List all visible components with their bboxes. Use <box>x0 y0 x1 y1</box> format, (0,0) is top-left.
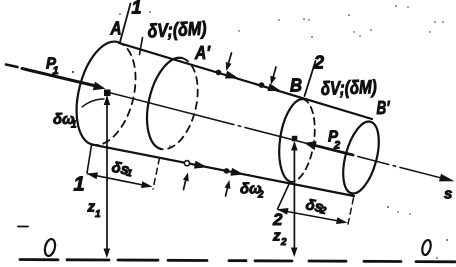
velocity dot 1 on top line <box>216 70 222 76</box>
arrowhead of s axis <box>439 174 455 182</box>
svg-text:δV;(δM): δV;(δM) <box>320 77 377 100</box>
dimension z2 vertical <box>291 141 298 257</box>
wire axis lead-in dash <box>6 65 18 68</box>
svg-text:1: 1 <box>53 65 59 77</box>
small down arrow 1 onto top line <box>226 53 232 71</box>
section line 1 extension below tube <box>87 145 92 173</box>
velocity dot 2 on bottom line <box>224 168 230 174</box>
node centre of section 2 <box>292 136 298 142</box>
svg-text:2: 2 <box>272 210 283 229</box>
section line 2 extension below tube <box>278 183 290 209</box>
velocity arrowhead 1 on top line <box>225 71 239 79</box>
small up arrow 1 onto bottom line <box>183 173 189 190</box>
svg-text:2: 2 <box>333 140 340 152</box>
svg-text:z: z <box>272 228 281 245</box>
leader arc of dw1 <box>82 99 104 107</box>
small down arrow 2 onto top line <box>270 67 276 85</box>
label O left <box>43 238 56 257</box>
small stray dash left <box>18 226 28 228</box>
velocity arrowhead 1 on bottom line <box>194 161 208 169</box>
svg-text:1: 1 <box>132 0 142 18</box>
dashed projection of A' below tube <box>153 158 160 189</box>
svg-text:A′: A′ <box>194 43 210 63</box>
arrow P1 pressure force at section 1 <box>22 69 106 91</box>
node centre of section 1 <box>104 90 111 97</box>
svg-text:s: s <box>444 186 452 203</box>
ellipse end cap B' solid <box>336 118 385 198</box>
wire tube top line A to B' <box>119 43 372 119</box>
svg-text:2: 2 <box>257 190 264 201</box>
svg-text:1: 1 <box>95 209 101 220</box>
small up arrow 2 onto bottom line <box>225 180 231 196</box>
ellipse section 2 solid left half <box>279 99 303 182</box>
wire tube bottom line <box>92 145 354 197</box>
tick on top line near A <box>140 38 143 55</box>
scan noise specks <box>72 5 448 259</box>
ellipse section A' dashed right half <box>161 58 198 149</box>
svg-text:B′: B′ <box>377 98 391 118</box>
svg-text:A: A <box>110 19 122 39</box>
dimension z1 vertical <box>104 96 111 259</box>
svg-text:1: 1 <box>74 174 85 196</box>
svg-text:δV;(δM): δV;(δM) <box>147 18 207 42</box>
dimension ds2 <box>277 208 348 224</box>
svg-text:1: 1 <box>71 120 77 131</box>
wire axis centre line (dash-dot) <box>107 92 448 180</box>
ellipse section A' solid left half <box>147 58 182 149</box>
arrow P2 pressure force at section 2 <box>304 141 353 155</box>
label O right <box>421 239 432 256</box>
velocity arrowhead 2 on bottom line <box>231 168 245 176</box>
section line 2 top <box>305 61 316 96</box>
ellipse section 1 solid left half <box>77 42 118 145</box>
dashed projection of B' below tube <box>348 198 354 224</box>
ellipse section 2 dashed right half <box>291 99 315 182</box>
svg-text:B: B <box>290 76 302 96</box>
svg-text:2: 2 <box>280 237 287 248</box>
section line 1 top <box>120 4 131 43</box>
ellipse section 1 dashed right half <box>92 42 136 145</box>
ground datum line O-O dashed <box>20 260 455 262</box>
velocity open dot on bottom line <box>184 161 189 166</box>
velocity arrowhead 2 on top line <box>267 83 281 91</box>
velocity dot 2 on top line <box>259 82 265 88</box>
svg-text:2: 2 <box>313 53 324 73</box>
dimension ds1 <box>87 172 153 188</box>
